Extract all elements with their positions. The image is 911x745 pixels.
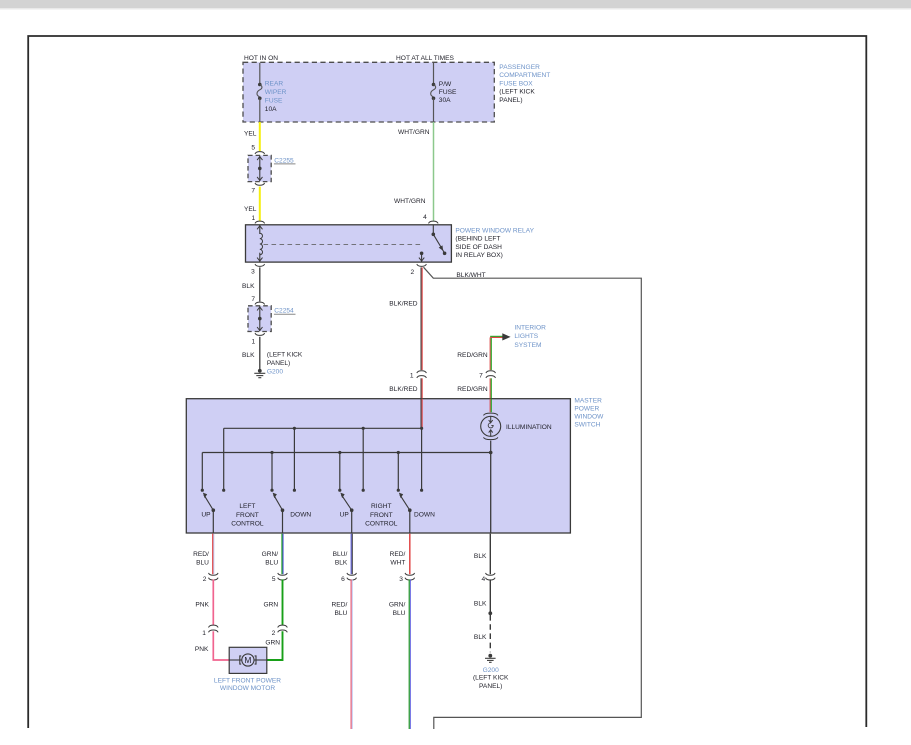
switch right front DOWN — [399, 493, 412, 533]
svg-text:1: 1 — [252, 338, 256, 345]
svg-text:BLK/RED: BLK/RED — [389, 386, 417, 393]
svg-text:GRN: GRN — [265, 640, 280, 647]
left front power window motor — [229, 647, 267, 673]
connector cup below C2254 — [255, 333, 265, 335]
svg-text:30A: 30A — [439, 97, 451, 104]
label WHT/GRN — [398, 129, 430, 136]
svg-text:5: 5 — [251, 144, 255, 151]
pin 7 C2254 — [251, 296, 255, 303]
pin 2 — [203, 576, 207, 583]
svg-text:RIGHT: RIGHT — [371, 503, 392, 510]
svg-text:(BEHIND LEFT: (BEHIND LEFT — [455, 236, 500, 243]
pin 1 relay — [252, 215, 256, 222]
svg-text:2: 2 — [411, 269, 415, 276]
label BLK (pin4 top) — [474, 553, 487, 560]
wire RED/GRN to interior lights — [490, 336, 502, 370]
label BLK/WHT — [456, 272, 485, 279]
label WHT/GRN 2 — [394, 198, 426, 205]
switch left front DOWN — [273, 493, 285, 533]
label RED/GRN 2 — [457, 386, 488, 393]
svg-text:G200: G200 — [267, 368, 283, 375]
svg-text:BLK: BLK — [474, 601, 487, 608]
label GRN/ BLU 2 — [389, 602, 406, 618]
fuse label REAR WIPER FUSE 10A — [265, 81, 287, 113]
label RED/GRN — [457, 352, 488, 359]
svg-text:DOWN: DOWN — [290, 512, 311, 519]
label YEL 2 — [244, 206, 257, 213]
connector cup relay pin 1 — [255, 221, 265, 223]
passenger compartment fuse box (dashed) — [243, 62, 494, 122]
wire BLU/BLK switch to connector pin 6 — [351, 534, 352, 575]
svg-text:PANEL): PANEL) — [499, 97, 522, 104]
svg-text:RED/GRN: RED/GRN — [457, 352, 488, 359]
wire BLK/RED inside switch to upper bus — [421, 399, 422, 429]
svg-text:PNK: PNK — [195, 602, 209, 609]
connector C2254 (dashed box) — [248, 306, 271, 332]
junction dots upper bus — [293, 427, 423, 430]
wire YEL fuse to C2255 — [259, 122, 261, 151]
svg-text:COMPARTMENT: COMPARTMENT — [499, 72, 550, 79]
svg-text:PANEL): PANEL) — [267, 360, 290, 367]
svg-text:HOT AT ALL TIMES: HOT AT ALL TIMES — [396, 55, 455, 62]
ground G200 (left kick panel) — [254, 369, 265, 378]
svg-text:P/W: P/W — [439, 81, 452, 88]
fuse REAR WIPER FUSE 10A — [257, 63, 262, 122]
wire RED/BLU switch to connector pin 2 — [213, 534, 214, 575]
label PASSENGER COMPARTMENT FUSE BOX (LEFT KICK PANEL) — [499, 64, 550, 104]
svg-text:PASSENGER: PASSENGER — [499, 64, 540, 71]
svg-text:INTERIOR: INTERIOR — [514, 324, 546, 331]
connector cup relay pin 3 — [255, 264, 265, 266]
svg-text:CONTROL: CONTROL — [365, 520, 398, 527]
wire BLK/RED into master switch — [421, 378, 422, 398]
svg-text:PANEL): PANEL) — [479, 683, 502, 690]
svg-text:GRN/: GRN/ — [389, 602, 406, 609]
label BLK/RED 2 — [389, 386, 417, 393]
inline connector (double cup) pin 2 — [209, 573, 219, 580]
pin 4 — [482, 576, 486, 583]
wire RED/BLU down to page edge — [351, 579, 352, 729]
svg-text:LEFT FRONT POWER: LEFT FRONT POWER — [214, 677, 281, 684]
svg-text:BLU: BLU — [393, 610, 406, 617]
svg-text:7: 7 — [251, 296, 255, 303]
label YEL — [244, 131, 257, 138]
svg-text:6: 6 — [341, 576, 345, 583]
svg-text:RED/GRN: RED/GRN — [457, 386, 488, 393]
pin 3 — [399, 576, 403, 583]
pin 1 motor connector — [202, 630, 206, 637]
label BLK mid — [474, 601, 487, 608]
master power window switch box — [186, 399, 570, 533]
svg-text:7: 7 — [479, 372, 483, 379]
svg-text:2: 2 — [203, 576, 207, 583]
svg-text:LIGHTS: LIGHTS — [514, 333, 538, 340]
svg-text:ILLUMINATION: ILLUMINATION — [506, 424, 552, 431]
connector cup above C2254 — [255, 302, 265, 304]
svg-text:G200: G200 — [483, 667, 499, 674]
wire GRN/BLU down to page edge — [409, 579, 410, 729]
label RED/ BLU — [193, 551, 209, 567]
inline connector (double cup) motor pin 1 — [209, 625, 219, 632]
svg-text:4: 4 — [482, 576, 486, 583]
pin 6 — [341, 576, 345, 583]
junction dots lower bus — [270, 451, 492, 455]
label BLK 2 — [242, 352, 255, 359]
relay switch contacts — [419, 225, 447, 261]
svg-text:BLK: BLK — [335, 559, 348, 566]
svg-text:WIPER: WIPER — [265, 89, 287, 96]
label C2255 — [274, 157, 296, 164]
wire GRN to motor connector — [282, 579, 284, 625]
wire lamp to pin 4 inside box — [490, 453, 492, 533]
pin 5 — [272, 576, 276, 583]
fuse P/W FUSE 30A — [431, 63, 436, 122]
inline connector (double cup) BLK/RED — [417, 371, 427, 378]
svg-text:(LEFT KICK: (LEFT KICK — [267, 351, 303, 358]
wire WHT/GRN fuse box to relay pin 4 — [433, 122, 435, 221]
pin 7 inline — [479, 372, 483, 379]
pin 1 inline — [410, 372, 414, 379]
label G200 (LEFT KICK PANEL) right — [473, 667, 509, 690]
svg-text:LEFT: LEFT — [239, 503, 255, 510]
svg-text:SIDE OF DASH: SIDE OF DASH — [455, 244, 502, 251]
label LEFT FRONT POWER WINDOW MOTOR — [214, 677, 281, 692]
label LEFT FRONT CONTROL — [231, 503, 264, 527]
svg-text:SYSTEM: SYSTEM — [514, 342, 541, 349]
svg-text:WHT/GRN: WHT/GRN — [394, 198, 426, 205]
pin 5 — [251, 144, 255, 151]
inline connector (double cup) motor pin 2 — [278, 625, 288, 632]
svg-text:SWITCH: SWITCH — [574, 422, 600, 429]
wire PNK into motor — [213, 631, 229, 660]
svg-text:RED/: RED/ — [332, 602, 348, 609]
svg-text:BLK: BLK — [242, 352, 255, 359]
label BLK low — [474, 634, 487, 641]
wire PNK to motor connector — [212, 579, 214, 625]
wire RED/GRN into master switch — [490, 378, 491, 398]
svg-text:YEL: YEL — [244, 206, 257, 213]
connector cup below C2255 — [255, 183, 265, 185]
inline connector (double cup) pin 5 — [278, 573, 288, 580]
label ILLUMINATION — [506, 424, 552, 431]
label GRN/ BLU — [262, 551, 279, 567]
wire YEL C2255 to relay — [259, 187, 261, 221]
svg-text:7: 7 — [251, 188, 255, 195]
svg-text:C2254: C2254 — [274, 308, 294, 315]
label G200 — [267, 368, 283, 375]
node HOT IN ON — [244, 55, 278, 62]
pin 2 relay — [411, 269, 415, 276]
svg-text:PNK: PNK — [195, 646, 209, 653]
svg-text:POWER: POWER — [574, 406, 599, 413]
label BLK — [242, 283, 255, 290]
svg-text:RED/: RED/ — [193, 551, 209, 558]
svg-text:BLK: BLK — [474, 553, 487, 560]
label BLU/ BLK — [333, 551, 348, 567]
wire BLK to splice — [489, 579, 491, 613]
inline connector (double cup) pin 3 — [405, 573, 415, 580]
svg-text:IN RELAY BOX): IN RELAY BOX) — [455, 252, 502, 259]
connector cup above C2255 — [255, 152, 265, 154]
wire GRN into motor — [267, 631, 283, 660]
wire BLK switch pin4 to connector — [489, 534, 491, 575]
fuse label P/W FUSE 30A — [439, 81, 457, 104]
contact dots row — [201, 489, 424, 492]
pin 1 C2254 — [252, 338, 256, 345]
wire BLK C2254 to G200 — [259, 337, 261, 369]
wire GRN/BLU switch to connector pin 5 — [282, 534, 283, 575]
wire RED/WHT switch to connector pin 3 — [409, 534, 411, 575]
svg-text:FRONT: FRONT — [236, 512, 259, 519]
svg-text:CONTROL: CONTROL — [231, 520, 264, 527]
label INTERIOR LIGHTS SYSTEM — [514, 324, 546, 349]
svg-text:WINDOW MOTOR: WINDOW MOTOR — [220, 685, 275, 692]
svg-text:GRN: GRN — [263, 602, 278, 609]
svg-text:M: M — [244, 655, 251, 665]
illumination lamp — [481, 399, 501, 453]
svg-text:1: 1 — [252, 215, 256, 222]
svg-text:1: 1 — [410, 372, 414, 379]
wire BLK dashed to G200 — [489, 615, 491, 652]
inline connector (double cup) pin 6 — [347, 573, 357, 580]
svg-text:BLK/WHT: BLK/WHT — [456, 272, 485, 279]
label POWER WINDOW RELAY (BEHIND LEFT SIDE OF DASH IN RELAY BOX) — [455, 228, 534, 260]
svg-text:WHT: WHT — [390, 559, 405, 566]
svg-text:YEL: YEL — [244, 131, 257, 138]
node HOT AT ALL TIMES — [396, 55, 455, 62]
svg-text:BLU: BLU — [265, 559, 278, 566]
svg-text:MASTER: MASTER — [574, 397, 602, 404]
svg-text:WINDOW: WINDOW — [574, 414, 604, 421]
svg-text:BLU: BLU — [334, 610, 347, 617]
top gray toolbar strip — [0, 0, 911, 8]
upper bus bar — [224, 428, 422, 490]
pin 4 relay — [423, 214, 427, 221]
label BLK/RED — [389, 300, 417, 307]
label PNK 2 — [195, 646, 209, 653]
svg-text:(LEFT KICK: (LEFT KICK — [499, 89, 535, 96]
label RED/ WHT — [390, 551, 406, 567]
connector cup relay pin 4 — [429, 221, 439, 223]
connector C2255 (dashed box) — [248, 155, 271, 181]
label RED/ BLU 2 — [332, 602, 348, 618]
arrow to interior lights system — [502, 333, 510, 340]
relay internal dashed link — [264, 243, 422, 245]
svg-text:5: 5 — [272, 576, 276, 583]
svg-text:FRONT: FRONT — [370, 512, 393, 519]
svg-text:UP: UP — [340, 512, 350, 519]
svg-text:BLK: BLK — [242, 283, 255, 290]
pin 2 motor connector — [272, 630, 276, 637]
svg-text:3: 3 — [399, 576, 403, 583]
svg-text:UP: UP — [201, 512, 211, 519]
svg-text:1: 1 — [202, 630, 206, 637]
lower bus bar — [202, 453, 490, 491]
svg-text:C2255: C2255 — [274, 157, 294, 164]
wire BLK/RED relay pin2 to inline connector pin 1 — [421, 267, 422, 370]
svg-text:BLK: BLK — [474, 634, 487, 641]
svg-text:4: 4 — [423, 214, 427, 221]
inline connector (double cup) pin 4 — [486, 573, 496, 580]
svg-text:FUSE: FUSE — [439, 89, 457, 96]
label MASTER POWER WINDOW SWITCH — [574, 397, 604, 428]
label RIGHT FRONT CONTROL — [365, 503, 398, 527]
label UP (left) — [201, 512, 211, 519]
svg-text:HOT IN ON: HOT IN ON — [244, 55, 278, 62]
pin 7 — [251, 188, 255, 195]
switch right front UP — [340, 493, 353, 533]
svg-text:FUSE BOX: FUSE BOX — [499, 80, 533, 87]
switch left front UP — [203, 493, 215, 533]
svg-text:RED/: RED/ — [390, 551, 406, 558]
wire BLK relay pin3 to C2254 — [259, 267, 261, 301]
splice dot — [488, 611, 492, 615]
power window relay box — [246, 225, 452, 262]
svg-text:BLU/: BLU/ — [333, 551, 348, 558]
svg-text:BLU: BLU — [196, 559, 209, 566]
label UP (right) — [340, 512, 350, 519]
label C2254 — [274, 308, 296, 315]
label GRN — [263, 602, 278, 609]
inline connector (double cup) RED/GRN — [486, 371, 496, 378]
svg-text:REAR: REAR — [265, 81, 284, 88]
svg-text:3: 3 — [251, 269, 255, 276]
label GRN 2 — [265, 640, 280, 647]
connector cup relay pin 2 — [417, 264, 427, 266]
svg-text:FUSE: FUSE — [265, 97, 283, 104]
svg-text:(LEFT KICK: (LEFT KICK — [473, 675, 509, 682]
svg-text:10A: 10A — [265, 106, 277, 113]
svg-text:POWER WINDOW RELAY: POWER WINDOW RELAY — [455, 228, 534, 235]
svg-text:GRN/: GRN/ — [262, 551, 279, 558]
ground G200 (right) — [485, 654, 496, 663]
label (LEFT KICK PANEL) — [267, 351, 303, 367]
svg-text:2: 2 — [272, 630, 276, 637]
label DOWN (left) — [290, 512, 311, 519]
pin 3 relay — [251, 269, 255, 276]
svg-text:BLK/RED: BLK/RED — [389, 300, 417, 307]
relay coil — [257, 225, 262, 261]
wire BLK/WHT relay pin2 branch — [424, 267, 642, 729]
svg-text:WHT/GRN: WHT/GRN — [398, 129, 430, 136]
svg-text:DOWN: DOWN — [414, 512, 435, 519]
label PNK — [195, 602, 209, 609]
label DOWN (right) — [414, 512, 435, 519]
